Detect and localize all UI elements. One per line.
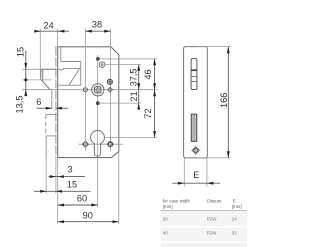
svg-text:PZW: PZW bbox=[207, 216, 218, 221]
screw diamond bbox=[192, 147, 199, 154]
svg-text:46: 46 bbox=[143, 69, 153, 79]
lock case outline bbox=[58, 47, 119, 158]
extension line latch nose bbox=[39, 29, 41, 78]
extension case left down bbox=[57, 158, 59, 224]
svg-text:for case width: for case width bbox=[163, 199, 191, 204]
latch bolt (front view nose) bbox=[41, 69, 57, 89]
latch tail line bbox=[51, 90, 53, 109]
svg-text:[mm]: [mm] bbox=[163, 204, 173, 209]
svg-text:[mm]: [mm] bbox=[232, 204, 242, 209]
dimension 46 / 72 bbox=[143, 59, 156, 138]
svg-text:72: 72 bbox=[143, 108, 153, 118]
latch nose chord bbox=[42, 69, 44, 80]
right column centerline (through posts/diamonds) bbox=[110, 29, 112, 151]
extension faceplate front down bbox=[45, 158, 47, 194]
extension case right down bbox=[118, 152, 120, 224]
svg-text:40: 40 bbox=[163, 230, 168, 235]
dimension 3 bbox=[49, 165, 85, 178]
svg-text:30: 30 bbox=[163, 216, 168, 221]
dash-dot line (frame reference) bbox=[55, 47, 57, 158]
main vertical centerline (follower/cylinder axis) bbox=[97, 55, 99, 160]
dimension 38 bbox=[86, 20, 111, 33]
svg-text:24: 24 bbox=[43, 21, 53, 31]
filled dot top bbox=[96, 57, 100, 61]
extension top dot line bbox=[100, 58, 157, 60]
extension line x=85.4 (centerline through screw hole and diamond) bbox=[84, 29, 86, 151]
extension dash line down bbox=[55, 158, 57, 194]
cylinder fixing diamond left bbox=[82, 141, 88, 147]
svg-text:PZW: PZW bbox=[207, 230, 218, 235]
svg-text:15: 15 bbox=[67, 179, 77, 189]
dimension 24 bbox=[34, 21, 69, 33]
latch bolt body and bevel diagonal bbox=[56, 68, 80, 70]
small circle left of follower bbox=[83, 88, 87, 92]
svg-text:37,5: 37,5 bbox=[129, 68, 139, 86]
svg-text:90: 90 bbox=[83, 211, 93, 221]
deadbolt slot bbox=[191, 114, 196, 141]
faceplate bbox=[184, 47, 208, 158]
dimension 37,5 / 21 bbox=[129, 65, 141, 110]
svg-text:13,5: 13,5 bbox=[14, 96, 24, 114]
extension circle post line bbox=[105, 64, 141, 66]
svg-text:E: E bbox=[233, 199, 236, 204]
svg-text:E: E bbox=[193, 170, 199, 180]
latch top extension line bbox=[22, 68, 42, 70]
latch bolt face bbox=[191, 59, 197, 90]
diamond hole (follower level) bbox=[107, 87, 112, 92]
faceplate front edge lower bbox=[45, 136, 47, 158]
latch center line bbox=[22, 79, 51, 81]
svg-text:Closure: Closure bbox=[207, 199, 223, 204]
svg-text:166: 166 bbox=[219, 93, 229, 108]
follower horizontal centerline bbox=[22, 89, 157, 91]
svg-text:60: 60 bbox=[77, 193, 87, 203]
crossed-circle post bbox=[107, 79, 112, 84]
svg-text:6: 6 bbox=[36, 97, 41, 107]
latch chamber inside case bbox=[60, 47, 62, 62]
extension cylinder center down bbox=[97, 160, 99, 207]
svg-text:24: 24 bbox=[232, 216, 237, 221]
extension line case left top bbox=[57, 29, 59, 47]
diamonds horizontal centerline bbox=[79, 143, 123, 145]
follower (square spindle hub) bbox=[92, 84, 104, 96]
extension lower dot line bbox=[100, 102, 141, 104]
svg-text:3: 3 bbox=[67, 165, 72, 175]
cylinder fixing diamond right bbox=[107, 141, 113, 147]
dimension 90 bbox=[58, 211, 119, 223]
dimension 15 bbox=[34, 179, 90, 192]
svg-text:38: 38 bbox=[92, 20, 102, 30]
svg-text:21: 21 bbox=[129, 91, 139, 101]
lower-left deadbolt projection bbox=[46, 114, 57, 116]
screw post circle (top) bbox=[99, 62, 105, 68]
dimension 60 bbox=[58, 193, 98, 206]
svg-text:33: 33 bbox=[232, 230, 237, 235]
extension cylinder center line bbox=[105, 137, 158, 139]
svg-text:15: 15 bbox=[15, 47, 25, 57]
euro profile cylinder hole bbox=[91, 131, 105, 157]
filled dot below follower bbox=[96, 101, 100, 105]
